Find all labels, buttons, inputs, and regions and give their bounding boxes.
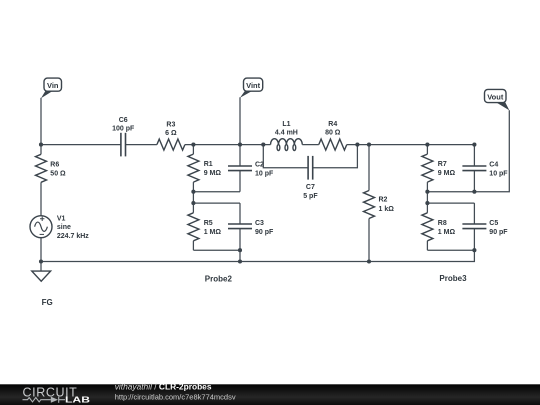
label R5 value bbox=[204, 220, 222, 236]
svg-text:FG: FG bbox=[42, 298, 53, 307]
junction C4 bottom Vout node bbox=[472, 190, 476, 194]
wire C2 branch bbox=[239, 145, 241, 192]
svg-text:1 MΩ: 1 MΩ bbox=[204, 229, 222, 236]
svg-text:sine: sine bbox=[57, 224, 71, 231]
svg-text:C4: C4 bbox=[489, 162, 498, 169]
svg-text:R5: R5 bbox=[204, 220, 213, 227]
svg-text:10 pF: 10 pF bbox=[489, 171, 508, 178]
junction R4 right / C7 right bbox=[355, 143, 359, 147]
capacitor C6 bbox=[121, 133, 126, 157]
svg-text:90 pF: 90 pF bbox=[489, 229, 508, 236]
logo circuit squiggle bbox=[23, 397, 66, 403]
wire C3 branch bbox=[239, 203, 241, 250]
resistor R8 bbox=[422, 213, 433, 241]
label L1 value bbox=[275, 121, 298, 137]
label R1 value bbox=[204, 161, 222, 177]
label R4 value bbox=[325, 121, 341, 137]
svg-text:224.7 kHz: 224.7 kHz bbox=[57, 233, 89, 240]
junction probe2 at ground rail bbox=[238, 259, 242, 263]
label V1 value bbox=[57, 215, 89, 240]
svg-text:1 MΩ: 1 MΩ bbox=[438, 229, 456, 236]
svg-text:V1: V1 bbox=[57, 215, 66, 222]
svg-text:R7: R7 bbox=[438, 161, 447, 168]
svg-text:C3: C3 bbox=[255, 220, 264, 227]
svg-text:9 MΩ: 9 MΩ bbox=[204, 170, 222, 177]
label C3 value bbox=[255, 220, 274, 236]
svg-text:10 pF: 10 pF bbox=[255, 171, 274, 178]
logo wordmark LAB bbox=[65, 395, 90, 405]
label R7 value bbox=[438, 161, 456, 177]
resistor R5 bbox=[188, 213, 199, 241]
junction C3 bottom probe2 ground bbox=[238, 248, 242, 252]
svg-text:R2: R2 bbox=[379, 197, 388, 204]
label C2 value bbox=[255, 162, 274, 178]
svg-text:Probe3: Probe3 bbox=[439, 274, 467, 283]
wire probe2 bottom node bbox=[193, 250, 240, 261]
wire probe3 bottom node bbox=[427, 249, 474, 251]
svg-text:LAB: LAB bbox=[65, 395, 90, 405]
svg-text:Vout: Vout bbox=[487, 92, 504, 101]
label R6 value bbox=[50, 161, 66, 177]
wire ground rail bbox=[41, 250, 474, 261]
wire R3 to L1 bbox=[185, 144, 271, 146]
node flag Vint bbox=[240, 78, 263, 98]
svg-text:C7: C7 bbox=[306, 184, 315, 191]
junction R2 bottom at ground rail bbox=[367, 259, 371, 263]
junction Vin node at R6 top bbox=[39, 143, 43, 147]
wire Vin lead bbox=[40, 98, 42, 145]
wire L1 to R4 bbox=[302, 144, 318, 146]
wire probe3 middle node with Vout lead bbox=[427, 110, 509, 192]
wire R4 to C4 top bbox=[347, 144, 475, 146]
junction L1 left / C7 left bbox=[261, 143, 265, 147]
svg-text:100 pF: 100 pF bbox=[112, 126, 135, 133]
svg-text:http://circuitlab.com/c7e8k774: http://circuitlab.com/c7e8k774mcdsv bbox=[115, 393, 236, 402]
footer url text bbox=[115, 393, 236, 402]
svg-text:1 kΩ: 1 kΩ bbox=[379, 206, 395, 213]
footer bar bbox=[0, 384, 540, 405]
junction V1 negative at ground rail bbox=[39, 259, 43, 263]
junction R7 bottom Vout node bbox=[425, 190, 429, 194]
node flag Vin bbox=[41, 78, 62, 98]
resistor R6 bbox=[36, 154, 47, 182]
wire Vint lead bbox=[239, 97, 241, 144]
label C5 value bbox=[489, 220, 508, 236]
node flag Vout bbox=[485, 89, 510, 110]
resistor R7 bbox=[422, 154, 433, 182]
wire C6 to R3 bbox=[126, 144, 157, 146]
svg-text:Vin: Vin bbox=[47, 81, 59, 90]
svg-text:C6: C6 bbox=[119, 117, 128, 124]
wire ground stub bbox=[40, 262, 42, 272]
logo wordmark CIRCUIT bbox=[23, 385, 78, 399]
label Probe3 bbox=[439, 274, 467, 283]
wire C4 branch bbox=[473, 145, 475, 192]
svg-text:R4: R4 bbox=[328, 121, 337, 128]
label Probe2 bbox=[205, 275, 233, 284]
svg-text:vithayathil / CLR-2probes: vithayathil / CLR-2probes bbox=[115, 381, 212, 391]
svg-text:C5: C5 bbox=[489, 220, 498, 227]
svg-text:C2: C2 bbox=[255, 162, 264, 169]
label R8 value bbox=[438, 220, 456, 236]
svg-text:R6: R6 bbox=[50, 161, 59, 168]
wire left column V1 branch bbox=[40, 145, 42, 262]
junction R2 top bbox=[367, 143, 371, 147]
wire R5 stubs bbox=[192, 203, 194, 250]
ground FG bbox=[32, 271, 51, 281]
junction C4 top bbox=[472, 143, 476, 147]
svg-text:80 Ω: 80 Ω bbox=[325, 130, 341, 137]
capacitor C2 bbox=[228, 166, 252, 171]
voltage source V1 bbox=[30, 216, 52, 238]
wire R8 stubs bbox=[426, 203, 428, 250]
junction R1 top on Vint net bbox=[191, 143, 195, 147]
label R3 value bbox=[165, 122, 177, 138]
wire probe2 lower box top bbox=[193, 202, 240, 204]
footer title text bbox=[115, 381, 212, 391]
svg-text:R1: R1 bbox=[204, 161, 213, 168]
svg-text:4.4 mH: 4.4 mH bbox=[275, 130, 298, 137]
svg-text:5 pF: 5 pF bbox=[303, 193, 318, 200]
svg-text:6 Ω: 6 Ω bbox=[165, 130, 177, 137]
svg-text:L1: L1 bbox=[282, 121, 290, 128]
junction R7 top bbox=[425, 143, 429, 147]
svg-text:90 pF: 90 pF bbox=[255, 229, 274, 236]
wire probe2 middle node bbox=[193, 191, 240, 193]
resistor R2 bbox=[364, 191, 375, 219]
wire R2 branch bbox=[368, 145, 370, 262]
inductor L1 bbox=[271, 139, 303, 151]
junction C2 top at Vint lead bbox=[238, 143, 242, 147]
wire main top net segment left bbox=[41, 144, 121, 146]
label R2 value bbox=[379, 197, 395, 213]
label C4 value bbox=[489, 162, 508, 178]
wire probe3 lower box top bbox=[427, 202, 474, 204]
capacitor C4 bbox=[462, 166, 486, 171]
capacitor C3 bbox=[228, 224, 252, 229]
capacitor C5 bbox=[462, 224, 486, 229]
wire C5 branch bbox=[473, 203, 475, 250]
svg-text:9 MΩ: 9 MΩ bbox=[438, 170, 456, 177]
resistor R4 bbox=[319, 139, 347, 150]
resistor R3 bbox=[157, 139, 185, 150]
wire C7 bypass bbox=[263, 145, 357, 168]
junction R1 bottom middle node bbox=[191, 190, 195, 194]
label C7 value bbox=[303, 184, 318, 200]
junction R8 top bbox=[425, 201, 429, 205]
label C6 value bbox=[112, 117, 135, 133]
wire R1 branch bbox=[192, 145, 194, 204]
svg-text:Probe2: Probe2 bbox=[205, 275, 233, 284]
capacitor C7 bbox=[308, 156, 313, 180]
net name FG bbox=[42, 298, 53, 307]
junction C5 bottom probe3 ground bbox=[472, 248, 476, 252]
svg-text:Vint: Vint bbox=[246, 81, 261, 90]
wire R7 branch bbox=[426, 145, 428, 204]
resistor R1 bbox=[188, 154, 199, 182]
svg-text:50 Ω: 50 Ω bbox=[50, 170, 66, 177]
junction R5 top bbox=[191, 201, 195, 205]
svg-text:R3: R3 bbox=[166, 122, 175, 129]
svg-text:R8: R8 bbox=[438, 220, 447, 227]
